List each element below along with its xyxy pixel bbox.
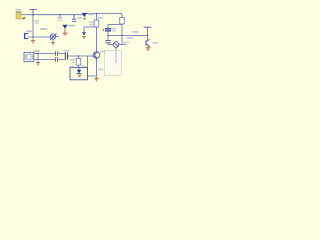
wire mid-left horizontal [28,36,50,38]
transistor Q1 [93,52,100,59]
capacitor C5 plates on x108 [105,41,111,43]
ground G1 under x33 [31,38,35,43]
stub and junction at x60 on rail [59,15,61,18]
capacitor C6 under rail x74 [72,15,76,22]
wire base of Q1 [88,55,94,57]
ground (orange) below chevron [82,37,86,38]
wire stub right of lamp [56,36,59,38]
ground dot (orange) below rail flag [83,18,85,19]
capacitor C1 plates [56,51,58,56]
wire caps output y56 [68,55,88,57]
label above C3 [63,50,69,52]
label right of C4 [112,28,117,30]
ground G6 under emitter [95,77,99,82]
label above crystal box [34,50,40,52]
capacitor C2 plates [56,57,58,62]
battery BT1 (yellow body) [16,12,21,19]
wire circle O3 down into box [115,47,117,57]
resistor R2 on x122 [120,18,125,25]
ground G2 under lamp [51,42,55,45]
label above connector J1 [26,30,32,32]
wire top supply rail [21,14,122,15]
resistor R1 on x96.5 [94,20,99,27]
diode box D1 bottom-middle [70,68,88,80]
lamp DS1 (circle with arrow) [50,33,57,39]
wire resistor R3 column x78.5 [78,56,80,68]
label below y35.5 wire left of Q2 [127,37,134,39]
ground (orange) below flag [63,29,68,35]
wire inside speaker box [115,51,117,64]
pin label top-right of diode box [82,66,87,68]
speaker box (white) [105,51,122,76]
pin label top-left of diode box [70,66,75,68]
wire right vertical from rail end x122 [121,14,123,36]
wire gnd stub x38 [37,54,39,63]
label above y35.5 wire middle [132,31,139,33]
label above mid-left wire [40,28,47,30]
wire x87.5 vertical to bottom [87,56,89,76]
power VCC T-bar right x147.5 [144,26,152,28]
label below rail x60 [57,17,63,19]
label left of R3 [69,59,75,61]
ground G5 under x38 [36,63,40,66]
transducer circle O3 on y44.5 [113,42,119,48]
label right of Q1 [100,51,105,53]
text labels (faint) [16,9,159,70]
orange dot left of C4 [103,30,105,31]
transistor Q2 right column [146,39,150,46]
label above battery [16,9,22,11]
power VCC T-bar x33 [29,9,36,14]
label right of C6 [77,17,82,19]
wire y44.5 row [108,44,127,46]
wire vertical drop x33 rail to mid wire [32,15,34,37]
capacitor C3 plates [65,52,67,59]
wire collector column x96.5 [96,14,98,52]
wire mid-right horizontal y35.5 [108,35,148,37]
pin label (orange) of BT1 [22,17,25,19]
wire branch y24.5 to cap column [108,25,122,29]
label right of Q2 [152,42,158,44]
wire gnd branch y27 from R1 bottom [84,27,97,32]
wire lamp to gnd stub [52,39,54,41]
label right of O3 [123,42,129,44]
junction dots [32,13,148,57]
wire emitter column x96.5 lower [96,58,98,76]
label right of x96 stub [98,17,103,19]
orange dot in diode box [78,75,81,76]
label right of flag near caps [68,25,75,27]
label left of R1 [89,21,94,23]
schematic sheet background [0,0,170,97]
ground G7 right column [146,46,151,51]
wire right T-bar drop [147,27,149,40]
wire bottom y76 [88,75,97,77]
label right of emitter wire [98,69,103,71]
label right of x33 vertical [35,20,40,22]
wire osc top row y53.5 [34,53,65,55]
connector J1 bracket [25,33,29,39]
wire x122 joining y35.5 to y44.5 [121,36,123,45]
wire osc bottom row y59.5 [34,59,65,61]
label right of rail flag [88,13,94,15]
power flag (blue triangle) on rail x84.5 [82,13,87,17]
capacitor C4 (dark plates) on x108 [105,29,111,31]
power flag (blue triangle) near caps [62,25,67,29]
power flag chevron at x84 [82,32,86,35]
orange pin dot left of R3 [72,61,74,63]
resistor R3 on x78.5 [76,58,81,65]
wire cap column lower x108 [107,31,109,44]
crystal box Y1 [24,52,34,61]
